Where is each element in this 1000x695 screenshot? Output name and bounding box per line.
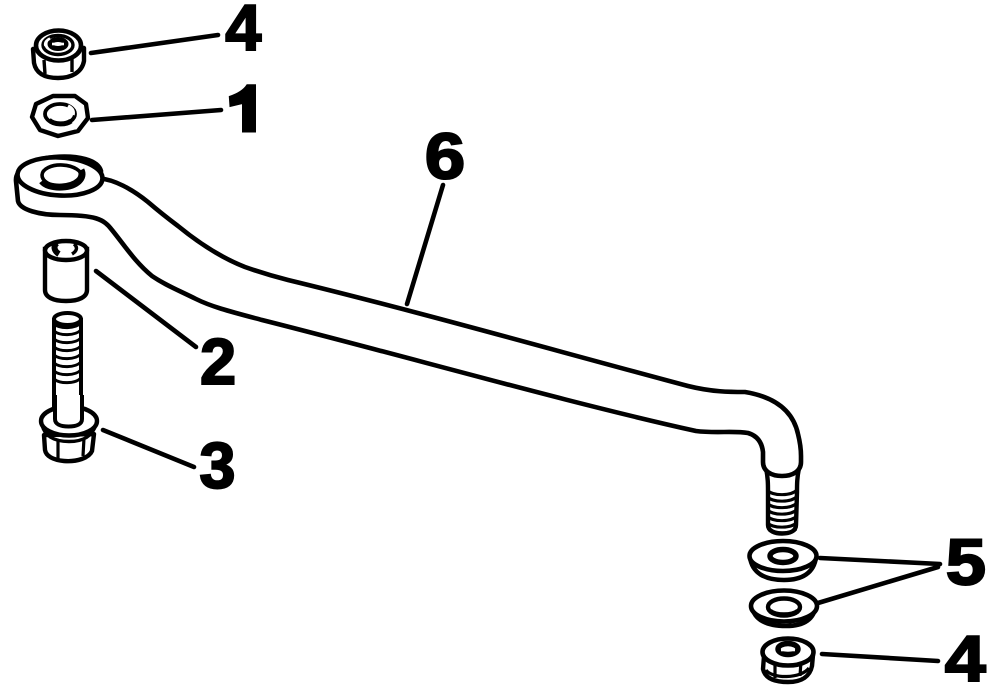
svg-text:5: 5 bbox=[946, 526, 986, 599]
svg-text:4: 4 bbox=[225, 0, 261, 64]
svg-text:2: 2 bbox=[200, 325, 236, 398]
svg-text:4: 4 bbox=[945, 622, 986, 695]
svg-text:6: 6 bbox=[425, 120, 465, 193]
svg-text:3: 3 bbox=[199, 429, 235, 502]
